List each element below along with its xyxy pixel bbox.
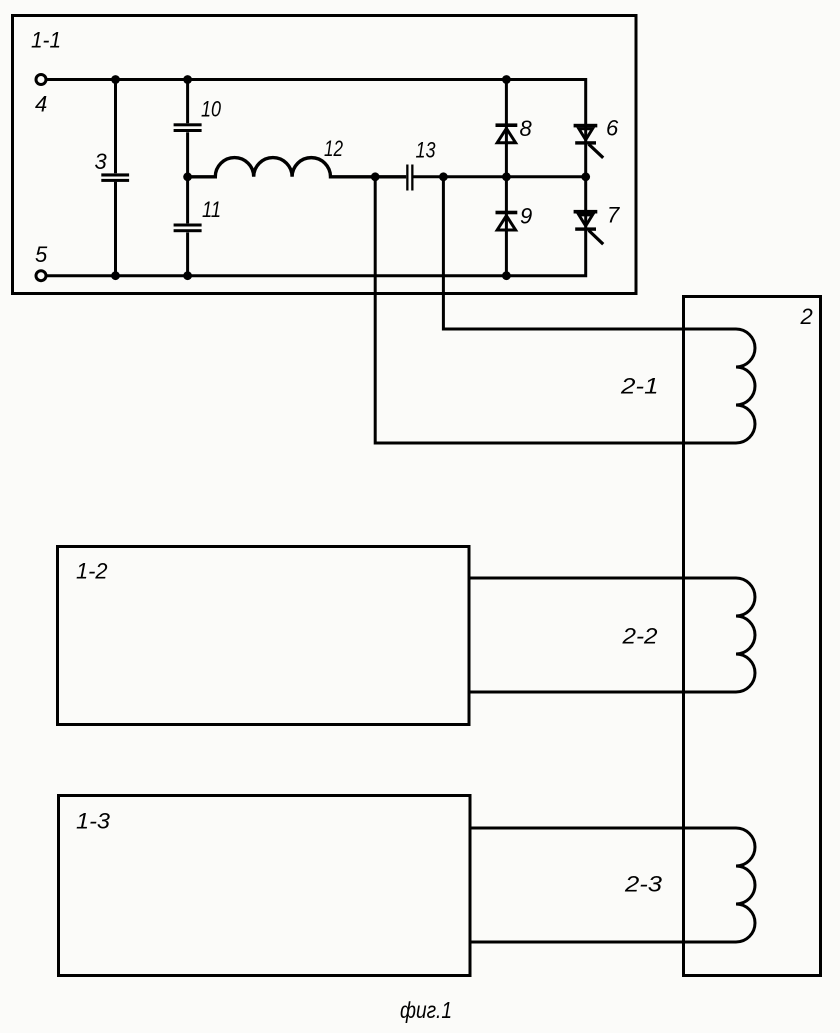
svg-text:7: 7 xyxy=(607,203,620,228)
block 1-1 outline xyxy=(13,16,637,294)
wire: top rail / thyristor column / bottom rail xyxy=(41,80,586,276)
winding 2-1 with wires xyxy=(375,177,755,443)
block 1-3 outline xyxy=(59,796,471,976)
capacitor C10/C11 column wire xyxy=(186,80,189,276)
diode column wire xyxy=(505,80,508,276)
svg-text:1-2: 1-2 xyxy=(76,559,108,584)
terminal 4 xyxy=(36,75,46,85)
thyristor V6 xyxy=(574,124,604,158)
svg-text:5: 5 xyxy=(35,242,48,267)
capacitor C13 plates xyxy=(406,165,413,191)
capacitor C3 plates xyxy=(101,173,129,182)
diode D9 xyxy=(496,211,518,230)
svg-text:2: 2 xyxy=(800,304,813,329)
svg-text:2-2: 2-2 xyxy=(621,624,657,649)
svg-text:1-3: 1-3 xyxy=(76,809,111,834)
junction dots xyxy=(111,75,590,280)
svg-text:9: 9 xyxy=(520,204,532,229)
svg-text:2-3: 2-3 xyxy=(624,872,663,897)
svg-text:6: 6 xyxy=(606,116,619,141)
wire: middle rail right of C13 xyxy=(414,175,586,178)
terminal 5 xyxy=(36,271,46,281)
svg-text:11: 11 xyxy=(202,197,221,222)
svg-text:фиг.1: фиг.1 xyxy=(400,997,452,1023)
capacitor C3 column wire xyxy=(114,80,117,276)
block 1-2 outline xyxy=(58,547,470,725)
svg-text:2-1: 2-1 xyxy=(620,374,659,399)
svg-text:8: 8 xyxy=(520,116,533,141)
svg-text:10: 10 xyxy=(201,97,222,122)
svg-text:3: 3 xyxy=(95,149,108,174)
svg-text:4: 4 xyxy=(35,92,47,117)
winding 2-2 with wires xyxy=(470,578,755,692)
capacitor C10 plates xyxy=(174,123,202,132)
svg-text:13: 13 xyxy=(416,138,437,163)
capacitor C11 plates xyxy=(174,224,202,233)
thyristor V7 xyxy=(574,210,604,244)
svg-text:1-1: 1-1 xyxy=(31,28,61,53)
svg-text:12: 12 xyxy=(324,136,343,161)
winding 2-3 with wires xyxy=(471,828,755,942)
diode D8 xyxy=(496,123,518,142)
block 2 outline xyxy=(684,297,821,976)
inductor L12 with middle wire xyxy=(188,158,407,177)
